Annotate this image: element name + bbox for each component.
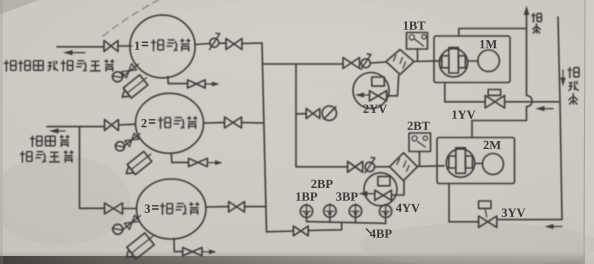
stubs	[307, 217, 386, 223]
wire: gauge branch	[296, 113, 306, 115]
unit 1M enclosure	[434, 36, 510, 83]
stray pencil arc (scan artifact)	[103, 0, 162, 36]
wire	[219, 42, 226, 44]
wire to bus	[245, 206, 267, 208]
wire: 1M cooling line	[445, 83, 559, 102]
wire	[123, 208, 137, 210]
gauge cock (tank 2)	[115, 133, 140, 151]
wire: supply line train 2	[296, 166, 348, 168]
tank 2	[136, 93, 204, 153]
valve (transmitter manifold)	[293, 226, 308, 236]
wire 1BT stub	[417, 49, 419, 61]
filter (train 1)	[386, 50, 414, 75]
wire: 1M drain to riser	[459, 29, 527, 37]
flow arrow on main 2	[52, 130, 65, 132]
flow arrow (cooling into 2M)	[549, 226, 562, 228]
valve (tank 2 outlet)	[225, 117, 242, 128]
motor 1M	[478, 50, 500, 72]
valve (tank 3 inlet)	[105, 203, 123, 214]
solenoid drain valve 4YV	[364, 173, 397, 206]
wire to bus	[242, 42, 262, 45]
svg-text:2YV: 2YV	[363, 102, 387, 116]
svg-text:2BP: 2BP	[311, 177, 334, 191]
wire	[119, 123, 136, 126]
drain arrow up	[524, 6, 530, 16]
pressure transmitter 4BP	[379, 204, 391, 218]
flow arrow (cooling into 1M)	[540, 108, 553, 110]
cooling water line (right)	[497, 17, 562, 220]
svg-text:1M: 1M	[479, 37, 497, 51]
wire: 2M cooling line	[449, 184, 479, 222]
wire	[308, 222, 342, 230]
pressure gauge	[322, 106, 336, 120]
svg-text:2BT: 2BT	[407, 119, 431, 133]
valve (tank 3 outlet)	[229, 202, 245, 213]
compressor (unit 1)	[439, 49, 467, 77]
check valve (train 2)	[365, 162, 374, 171]
svg-text:3BP: 3BP	[336, 190, 359, 204]
wire compressor to motor	[475, 163, 483, 165]
tank 1 text 贮气筒	[151, 39, 164, 51]
tank number "=" marks	[142, 42, 159, 209]
cooling water flow arrow	[562, 70, 564, 82]
svg-text:4YV: 4YV	[396, 201, 420, 215]
svg-text:1YV: 1YV	[451, 108, 475, 122]
tank 1	[130, 15, 195, 78]
tank 2 drain valve	[171, 154, 222, 167]
svg-text:1: 1	[134, 39, 140, 53]
pressure switch 2BT	[409, 133, 431, 152]
solenoid valve 3YV	[479, 216, 497, 227]
wire to unit 2M	[417, 165, 444, 168]
wire	[118, 45, 132, 47]
filter (train 2)	[390, 153, 418, 181]
svg-text:3YV: 3YV	[501, 206, 525, 220]
svg-text:1BP: 1BP	[295, 190, 318, 204]
wire: supply branch to compressor train 1	[263, 63, 344, 65]
wire: vertical bus	[262, 43, 267, 232]
unit 2M enclosure	[437, 138, 515, 184]
safety valve (tank 3)	[122, 230, 158, 263]
solenoid drain valve 2YV	[353, 73, 389, 109]
flow arrow on main 1	[66, 52, 85, 54]
svg-text:1BT: 1BT	[403, 19, 427, 33]
svg-text:3: 3	[144, 202, 150, 216]
tank 3 text 贮气筒	[160, 203, 173, 215]
pressure transmitter 2BP	[324, 204, 336, 218]
valve (gauge shut-off)	[306, 109, 320, 119]
svg-text:4BP: 4BP	[370, 227, 393, 241]
wire: tank 1 outlet	[195, 44, 210, 45]
valve (train 1 filter inlet)	[343, 58, 360, 69]
check valve (tank 1 outlet)	[210, 38, 219, 47]
tank 2 text 贮气筒	[158, 117, 171, 129]
label: 调相等 (phase modulation)	[30, 136, 42, 147]
wire to bus	[242, 122, 264, 124]
pressure transmitter 3BP	[349, 204, 361, 218]
wire to unit 1M	[414, 60, 442, 63]
wire 2BT stub	[419, 152, 421, 167]
gauge cock (tank 1)	[112, 64, 139, 82]
wire	[375, 166, 390, 168]
wire: manifold	[307, 222, 386, 224]
valve (tank 2 inlet)	[105, 120, 119, 131]
wire: braking air supply main (left, to tank 1)	[57, 46, 104, 48]
tank 1 drain valve	[168, 77, 220, 89]
svg-text:2: 2	[141, 116, 147, 130]
wire: phase-modulation air supply main (left, to tank 2)	[47, 126, 105, 128]
valve (train 2 filter inlet)	[348, 161, 363, 172]
label: 供气主管 (air supply main)	[20, 151, 32, 162]
valve (tank 1 inlet)	[104, 41, 118, 52]
pressure transmitter 1BP	[300, 204, 312, 218]
safety valve (tank 2)	[122, 149, 155, 179]
drain riser with bridge over 1YV line	[472, 9, 532, 138]
svg-text:2M: 2M	[483, 138, 501, 152]
valve (tank 1 outlet)	[226, 39, 242, 50]
label: 冷却水 (cooling water, vertical)	[568, 67, 580, 78]
check valve (train 1)	[361, 59, 370, 68]
label: 机组制动供气主管 (braking air supply main)	[4, 60, 16, 71]
wire	[371, 62, 387, 63]
leader tick before 4BP	[366, 229, 371, 234]
wire: bus bottom to transmitter manifold	[267, 230, 294, 233]
wire: vertical drop to train 2	[295, 64, 297, 167]
wire: branch from main 2 down to tank 3	[80, 127, 105, 209]
wire: tank 3 outlet	[206, 206, 229, 208]
gauge cock (tank 3)	[112, 215, 140, 234]
pressure switch 1BT	[407, 33, 428, 50]
motor 2M	[483, 154, 504, 175]
label: 排水 (drain water, vertical)	[532, 13, 542, 23]
wire: tank 2 outlet	[204, 122, 225, 124]
wire compressor to motor	[468, 60, 478, 62]
tank 3	[137, 179, 206, 239]
tank 3 drain valve	[174, 239, 217, 256]
solenoid valve 1YV	[485, 95, 504, 108]
compressor (unit 2)	[446, 149, 474, 177]
safety valve (tank 1)	[118, 73, 150, 102]
